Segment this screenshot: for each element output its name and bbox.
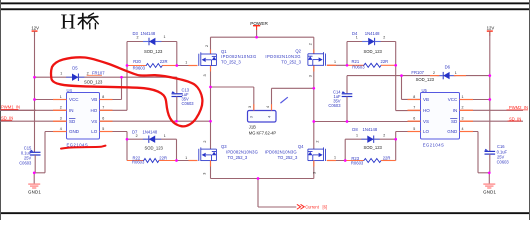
- svg-text:SOD_123: SOD_123: [144, 49, 163, 54]
- svg-text:2: 2: [383, 35, 385, 39]
- svg-text:SOD_123: SOD_123: [364, 145, 383, 150]
- svg-text:R0603: R0603: [133, 65, 146, 70]
- svg-text:5: 5: [413, 127, 415, 131]
- svg-text:IPD082N10N3G: IPD082N10N3G: [226, 149, 258, 154]
- svg-text:1: 1: [334, 60, 336, 64]
- svg-text:VB: VB: [91, 97, 97, 102]
- svg-text:C0603: C0603: [19, 161, 32, 166]
- svg-text:SD: SD: [451, 119, 458, 124]
- svg-text:2: 2: [383, 134, 385, 138]
- svg-text:R20: R20: [133, 59, 141, 64]
- svg-text:R0603: R0603: [352, 65, 365, 70]
- svg-text:2: 2: [309, 43, 313, 45]
- svg-text:22R: 22R: [381, 59, 389, 64]
- svg-text:7: 7: [413, 106, 415, 110]
- svg-text:MG KF7.62-4P: MG KF7.62-4P: [249, 131, 277, 136]
- svg-text:3: 3: [203, 74, 207, 76]
- svg-text:4: 4: [266, 106, 270, 108]
- svg-text:3: 3: [248, 106, 252, 108]
- svg-text:TO_252_3: TO_252_3: [281, 60, 301, 65]
- svg-text:H: H: [61, 10, 76, 34]
- svg-text:VS: VS: [91, 119, 97, 124]
- svg-text:VB: VB: [423, 97, 429, 102]
- svg-text:1: 1: [164, 35, 166, 39]
- svg-text:PWM2_IN: PWM2_IN: [509, 105, 528, 110]
- svg-text:SOD_123: SOD_123: [416, 77, 435, 82]
- svg-text:IN: IN: [453, 108, 458, 113]
- svg-text:2: 2: [316, 140, 320, 142]
- svg-text:4: 4: [60, 127, 62, 131]
- svg-text:C0603: C0603: [328, 103, 341, 108]
- svg-text:POWER: POWER: [250, 21, 268, 26]
- svg-text:12V: 12V: [487, 25, 495, 30]
- svg-text:22R: 22R: [159, 156, 167, 161]
- svg-text:D8: D8: [352, 127, 358, 132]
- svg-text:VS: VS: [423, 119, 429, 124]
- svg-text:Q2: Q2: [295, 48, 301, 53]
- svg-text:PWM1_IN: PWM1_IN: [1, 105, 20, 110]
- svg-text:IN: IN: [69, 108, 74, 113]
- svg-text:SOD_123: SOD_123: [364, 49, 383, 54]
- svg-text:R0603: R0603: [351, 160, 364, 165]
- svg-text:VCC: VCC: [69, 97, 79, 102]
- svg-text:HO: HO: [91, 108, 98, 113]
- svg-text:Q3: Q3: [221, 144, 227, 149]
- svg-text:2: 2: [137, 35, 139, 39]
- svg-text:R21: R21: [352, 59, 360, 64]
- svg-text:1N4148: 1N4148: [141, 31, 156, 36]
- svg-text:8: 8: [102, 95, 104, 99]
- svg-text:IPD082N10N3G: IPD082N10N3G: [265, 54, 301, 59]
- svg-text:SD: SD: [69, 119, 76, 124]
- svg-text:1: 1: [356, 134, 358, 138]
- svg-text:2: 2: [87, 71, 89, 75]
- svg-text:SD_IN: SD_IN: [1, 115, 13, 120]
- svg-text:LO: LO: [91, 129, 98, 134]
- svg-text:22R: 22R: [383, 156, 391, 161]
- svg-text:3: 3: [202, 173, 206, 175]
- svg-text:SOD_123: SOD_123: [84, 79, 103, 84]
- svg-text:1: 1: [462, 95, 464, 99]
- svg-text:1: 1: [455, 71, 457, 75]
- svg-text:6: 6: [102, 117, 104, 121]
- svg-text:GND1: GND1: [28, 189, 41, 194]
- svg-text:GND: GND: [447, 129, 458, 134]
- svg-text:FR107: FR107: [411, 70, 424, 75]
- svg-text:LO: LO: [423, 129, 430, 134]
- svg-text:Q1: Q1: [221, 49, 227, 54]
- svg-text:D5: D5: [72, 66, 78, 71]
- svg-text:[6]: [6]: [323, 205, 328, 210]
- svg-text:6: 6: [413, 117, 415, 121]
- svg-text:HO: HO: [423, 108, 430, 113]
- svg-text:IPD082N10N3G: IPD082N10N3G: [265, 149, 297, 154]
- svg-text:TO_252_3: TO_252_3: [228, 155, 248, 160]
- svg-text:2: 2: [462, 106, 464, 110]
- svg-text:C0603: C0603: [182, 101, 195, 106]
- svg-text:U5: U5: [422, 88, 428, 93]
- svg-text:U4: U4: [67, 88, 73, 93]
- svg-text:R0603: R0603: [132, 159, 145, 164]
- svg-text:7: 7: [102, 106, 104, 110]
- svg-text:1N4148: 1N4148: [363, 127, 378, 132]
- svg-text:2: 2: [203, 140, 207, 142]
- svg-text:2: 2: [205, 45, 209, 47]
- svg-text:VCC: VCC: [448, 97, 458, 102]
- svg-text:3: 3: [60, 117, 62, 121]
- svg-text:1N4148: 1N4148: [143, 130, 158, 135]
- svg-text:1: 1: [60, 95, 62, 99]
- svg-text:1: 1: [356, 35, 358, 39]
- svg-text:1: 1: [164, 134, 166, 138]
- svg-text:1: 1: [334, 155, 336, 159]
- svg-text:FR107: FR107: [92, 71, 105, 76]
- svg-text:J1B: J1B: [249, 125, 256, 130]
- svg-text:Q4: Q4: [298, 144, 304, 149]
- svg-text:TO_252_3: TO_252_3: [278, 155, 298, 160]
- svg-text:3: 3: [312, 172, 316, 174]
- svg-text:2: 2: [60, 106, 62, 110]
- svg-text:C0603: C0603: [497, 160, 510, 165]
- svg-text:1N4148: 1N4148: [365, 31, 380, 36]
- svg-text:2: 2: [136, 134, 138, 138]
- svg-text:8: 8: [413, 95, 415, 99]
- svg-text:Current: Current: [305, 205, 320, 210]
- svg-text:5: 5: [102, 127, 104, 131]
- svg-text:3: 3: [462, 117, 464, 121]
- svg-text:SOD_123: SOD_123: [145, 146, 164, 151]
- svg-text:TO_252_3: TO_252_3: [221, 60, 241, 65]
- svg-text:22R: 22R: [160, 59, 168, 64]
- svg-text:GND1: GND1: [483, 189, 496, 194]
- svg-text:3: 3: [308, 75, 312, 77]
- svg-text:EG2104S: EG2104S: [423, 142, 445, 147]
- svg-text:1: 1: [185, 60, 187, 64]
- svg-text:4: 4: [462, 127, 464, 131]
- svg-text:GND: GND: [69, 129, 80, 134]
- svg-text:1: 1: [60, 71, 62, 75]
- svg-text:IPD082N10N3G: IPD082N10N3G: [221, 54, 257, 59]
- svg-text:12V: 12V: [31, 25, 39, 30]
- svg-text:2: 2: [433, 71, 435, 75]
- svg-text:1: 1: [185, 156, 187, 160]
- svg-text:D6: D6: [445, 65, 451, 70]
